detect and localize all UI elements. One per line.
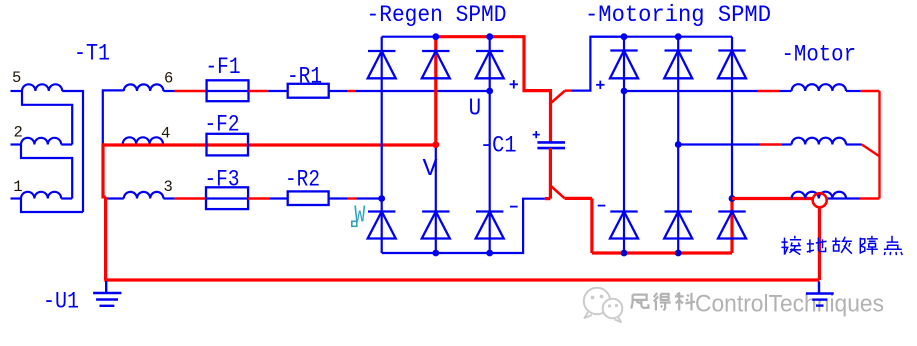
svg-text:5: 5	[12, 69, 21, 87]
dc link + blue wire to motoring bridge	[571, 37, 624, 91]
motoring leg 3 vertical lower red (fault path)	[730, 199, 733, 254]
ground fault label char gu	[832, 237, 852, 254]
regen bottom diode D6	[476, 212, 504, 239]
svg-text:U: U	[469, 95, 482, 122]
motoring bottom diode D10	[610, 212, 638, 239]
regen + polarity mark	[510, 80, 518, 88]
wire winding3 to F3 (blue then red)	[163, 197, 207, 199]
wire R2 to regen bridge W node with red tick	[329, 197, 382, 199]
T1 secondary winding 3	[124, 192, 164, 199]
fuse F2	[207, 134, 249, 156]
node dot motoring V junction	[675, 141, 682, 148]
motoring top rail	[590, 36, 732, 38]
ground symbol at fault point	[806, 282, 834, 306]
wire F1 to R1 (red then blue)	[249, 90, 288, 92]
motoring bottom rail red (fault path)	[592, 251, 732, 254]
svg-text:6: 6	[164, 70, 173, 88]
T1 primary winding 1	[11, 192, 62, 199]
regen leg 3 vertical	[489, 37, 491, 253]
svg-text:-R1: -R1	[287, 63, 322, 89]
svg-text:-T1: -T1	[74, 41, 110, 67]
red fault wire from fault point to bottom	[104, 207, 819, 280]
regen top rail red segment to DC+ link	[436, 37, 551, 91]
motoring top diode D7	[610, 51, 638, 79]
node dot motoring bottom rail leg2	[675, 250, 682, 257]
wire winding5 right to outer rail	[62, 91, 83, 212]
svg-text:-U1: -U1	[43, 289, 79, 315]
svg-text:2: 2	[14, 123, 23, 141]
svg-text:-F1: -F1	[206, 54, 241, 80]
watermark wechat logo	[584, 288, 623, 322]
svg-text:ControlTechniques: ControlTechniques	[695, 291, 884, 318]
wire motoring V output to motor (blue-red-blue)	[678, 143, 791, 145]
ground fault label char jie	[781, 236, 801, 255]
ground fault point circle	[813, 193, 827, 207]
regen top diode D1	[368, 51, 396, 78]
resistor R1	[288, 84, 329, 98]
dc link + red wire to C1 and link blade	[550, 89, 572, 143]
T1 primary winding 5	[11, 84, 63, 91]
capacitor C1 plus mark	[533, 131, 540, 138]
wire motoring W output to motor red (fault path)	[732, 197, 813, 200]
node W junction dot	[378, 195, 385, 202]
motor winding W	[792, 192, 846, 199]
resistor R2	[288, 191, 329, 205]
regen leg 2 vertical red upper part (fault path)	[434, 37, 437, 145]
regen leg 2 vertical blue lower part	[435, 145, 437, 253]
wire winding6 to F1 (blue then red)	[163, 90, 207, 92]
node dot regen bottom rail leg3	[486, 250, 493, 257]
svg-text:V: V	[423, 156, 439, 183]
regen top diode D2	[422, 51, 450, 78]
wire winding2 left drop to inner rail lower	[21, 145, 72, 199]
T1 secondary winding 6	[124, 84, 164, 91]
node dot regen top rail leg2	[432, 33, 439, 40]
regen leg 1 vertical	[381, 37, 383, 253]
svg-text:-Motoring SPMD: -Motoring SPMD	[585, 2, 771, 28]
wire motor U to star rail (blue then red)	[846, 90, 880, 92]
motor winding V	[792, 138, 846, 145]
motoring leg 3 vertical upper	[731, 37, 733, 199]
red fault wire: row V from neutral through F2 to regen leg 2	[102, 143, 436, 146]
motoring - polarity mark	[598, 205, 606, 207]
ground fault label char dian	[884, 236, 902, 255]
node V junction dot (red)	[432, 141, 439, 148]
wire motor W to star rail (blue then red)	[827, 197, 880, 199]
wire winding2 right to inner rail upper	[61, 143, 72, 145]
svg-text:-R2: -R2	[285, 166, 320, 192]
watermark char de	[654, 293, 671, 311]
ground fault label char di	[807, 238, 827, 253]
wire winding1 right to inner rail lower	[61, 197, 72, 199]
svg-text:-Regen SPMD: -Regen SPMD	[367, 2, 507, 28]
regen bottom rail	[382, 199, 545, 253]
svg-text:1: 1	[13, 178, 22, 196]
motoring bottom diode D12	[718, 212, 746, 239]
motor star point rail red	[878, 91, 880, 199]
svg-text:-Motor: -Motor	[782, 41, 857, 67]
fuse F3	[206, 187, 248, 209]
dc link - red wire from C1 down with link blade	[545, 148, 592, 253]
motoring top diode D9	[718, 51, 746, 79]
motoring leg 1 vertical	[623, 37, 625, 253]
capacitor C1	[537, 142, 565, 148]
svg-text:W: W	[354, 203, 365, 230]
watermark char ni	[631, 295, 648, 309]
regen top diode D3	[476, 51, 504, 78]
wire neutral rail to winding 3 (blue)	[105, 197, 124, 199]
T1 secondary winding 4	[123, 137, 163, 144]
red fault wire: neutral rail down from winding4	[103, 143, 106, 280]
T1 primary winding 2	[11, 138, 62, 145]
wire outer rail bottom to winding1 left	[21, 199, 83, 213]
motoring top diode D8	[664, 51, 692, 79]
node dot motoring top rail leg2	[675, 33, 682, 40]
node dot regen top rail leg3	[486, 33, 493, 40]
wire F3 to R2 (red then blue)	[248, 197, 288, 199]
wire R1 to regen bridge U node with red tick	[329, 90, 490, 92]
regen top rail blue segment	[382, 36, 436, 38]
ground symbol U1	[93, 281, 121, 306]
T1 secondary neutral rail upper (blue)	[103, 90, 124, 144]
node dot motoring bottom rail leg1	[621, 250, 628, 257]
regen bottom diode D5	[422, 212, 450, 239]
wire motoring U output to motor (blue-red-blue)	[624, 90, 792, 92]
svg-text:3: 3	[164, 178, 173, 196]
fuse F1	[207, 80, 249, 101]
regen bottom diode D4	[368, 212, 396, 239]
motoring + polarity mark	[596, 81, 604, 89]
wire motor V to star rail (blue then red diagonal)	[846, 145, 880, 157]
ground fault label char zhang	[860, 236, 878, 255]
motoring bottom diode D11	[664, 212, 692, 239]
node dot motoring W junction	[729, 195, 736, 202]
motor winding U	[792, 84, 846, 91]
regen - polarity mark	[510, 206, 518, 208]
node W marker square	[352, 221, 357, 226]
watermark char ke	[675, 293, 695, 311]
svg-text:-C1: -C1	[480, 133, 517, 159]
node dot motoring U junction	[621, 88, 628, 95]
wire winding5 left drop to inner rail	[22, 91, 72, 145]
node dot regen bottom rail leg2	[432, 250, 439, 257]
motoring leg 2 vertical	[677, 37, 679, 253]
node U junction dot	[486, 88, 493, 95]
node dot motoring top rail leg1	[621, 33, 628, 40]
